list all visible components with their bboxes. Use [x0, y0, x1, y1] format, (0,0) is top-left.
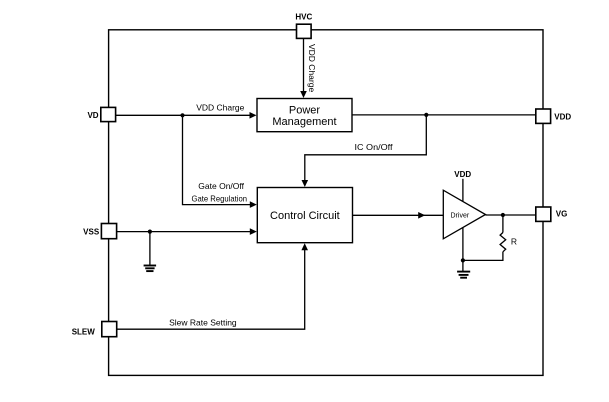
svg-text:Control Circuit: Control Circuit	[270, 210, 340, 222]
svg-text:Gate On/Off: Gate On/Off	[198, 181, 244, 191]
svg-text:VG: VG	[556, 210, 568, 219]
svg-text:Management: Management	[272, 116, 336, 128]
svg-text:R: R	[511, 236, 517, 246]
svg-text:VDD: VDD	[554, 113, 571, 122]
svg-text:Slew Rate Setting: Slew Rate Setting	[169, 318, 237, 328]
svg-text:Power: Power	[289, 104, 321, 116]
svg-text:Driver: Driver	[451, 212, 470, 219]
svg-text:VDD Charge: VDD Charge	[307, 44, 317, 92]
svg-text:IC On/Off: IC On/Off	[355, 142, 394, 152]
svg-text:HVC: HVC	[295, 13, 312, 22]
svg-text:Gate Regulation: Gate Regulation	[192, 194, 248, 204]
svg-text:VD: VD	[87, 111, 98, 120]
svg-text:VSS: VSS	[83, 227, 100, 236]
svg-text:SLEW: SLEW	[72, 328, 96, 337]
svg-text:VDD: VDD	[454, 170, 471, 179]
svg-text:VDD Charge: VDD Charge	[196, 103, 244, 113]
